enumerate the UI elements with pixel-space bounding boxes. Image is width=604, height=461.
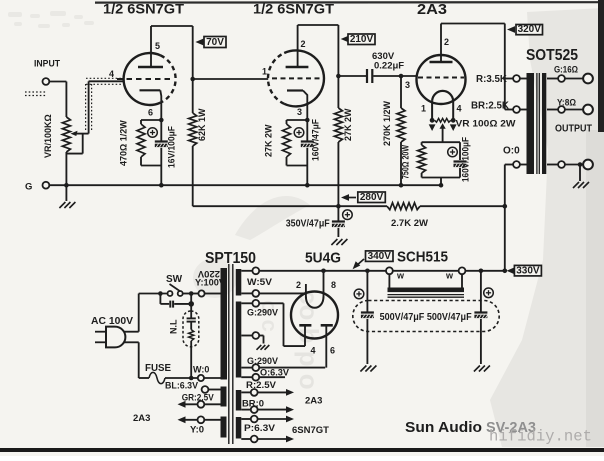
svg-text:Y:0: Y:0 xyxy=(190,425,204,436)
svg-text:BR:0: BR:0 xyxy=(242,398,264,409)
svg-text:2A3: 2A3 xyxy=(133,413,150,424)
svg-text:GR:2.5V: GR:2.5V xyxy=(182,393,215,404)
svg-text:G:290V: G:290V xyxy=(247,356,279,367)
svg-text:G:290V: G:290V xyxy=(247,308,279,319)
svg-text:1: 1 xyxy=(421,104,426,114)
svg-text:6: 6 xyxy=(148,108,153,118)
svg-text:AC 100V: AC 100V xyxy=(91,316,133,327)
svg-text:VR 100Ω 2W: VR 100Ω 2W xyxy=(456,119,516,130)
svg-text:4: 4 xyxy=(311,346,316,356)
svg-text:OUTPUT: OUTPUT xyxy=(555,124,592,135)
svg-text:16V/100μF: 16V/100μF xyxy=(167,126,177,168)
svg-text:hifidiy.net: hifidiy.net xyxy=(489,428,592,446)
svg-text:SOT525: SOT525 xyxy=(526,47,578,64)
svg-text:2A3: 2A3 xyxy=(417,2,447,18)
svg-text:280V: 280V xyxy=(360,192,384,203)
svg-text:340V: 340V xyxy=(368,251,392,262)
svg-text:BR:2.5K: BR:2.5K xyxy=(471,100,510,111)
svg-text:750Ω 20W: 750Ω 20W xyxy=(401,145,411,179)
svg-text:INPUT: INPUT xyxy=(34,59,60,70)
svg-text:2A3: 2A3 xyxy=(305,396,322,407)
svg-text:VR/100KΩ: VR/100KΩ xyxy=(43,114,53,158)
svg-text:SCH515: SCH515 xyxy=(397,249,448,266)
svg-text:G:16Ω: G:16Ω xyxy=(554,65,578,76)
svg-text:2: 2 xyxy=(296,280,301,290)
svg-text:8: 8 xyxy=(331,280,336,290)
svg-text:160V/47μF: 160V/47μF xyxy=(311,119,321,161)
svg-text:5U4G: 5U4G xyxy=(305,250,341,267)
svg-text:2.7K 2W: 2.7K 2W xyxy=(391,218,428,229)
svg-text:Y:8Ω: Y:8Ω xyxy=(557,98,576,109)
svg-text:3: 3 xyxy=(297,107,302,117)
svg-text:62K 1W: 62K 1W xyxy=(197,108,207,141)
svg-text:FUSE: FUSE xyxy=(145,363,171,374)
svg-text:G: G xyxy=(25,182,32,193)
svg-text:160V/100μF: 160V/100μF xyxy=(461,137,471,182)
svg-text:270K 1/2W: 270K 1/2W xyxy=(382,100,392,146)
svg-text:1/2 6SN7GT: 1/2 6SN7GT xyxy=(103,1,184,17)
svg-text:W:5V: W:5V xyxy=(247,277,273,288)
svg-text:W:0: W:0 xyxy=(193,365,209,375)
svg-text:6: 6 xyxy=(330,346,335,356)
svg-text:27K 2W: 27K 2W xyxy=(343,108,353,141)
svg-text:350V/47μF: 350V/47μF xyxy=(286,219,330,230)
svg-text:BL:6.3V: BL:6.3V xyxy=(165,381,199,392)
svg-text:4: 4 xyxy=(109,69,114,79)
svg-text:500V/47μF 500V/47μF: 500V/47μF 500V/47μF xyxy=(380,312,472,323)
svg-text:O:6.3V: O:6.3V xyxy=(260,368,290,379)
svg-text:w: w xyxy=(445,271,454,281)
svg-text:Sun Audio: Sun Audio xyxy=(405,419,482,436)
svg-text:SPT150: SPT150 xyxy=(205,250,256,267)
svg-text:N.L: N.L xyxy=(169,319,179,334)
svg-text:1/2 6SN7GT: 1/2 6SN7GT xyxy=(253,1,334,17)
svg-text:R:2.5V: R:2.5V xyxy=(246,380,277,391)
svg-text:O:0: O:0 xyxy=(503,146,520,157)
svg-text:70V: 70V xyxy=(206,37,224,48)
svg-text:w: w xyxy=(396,271,405,281)
svg-text:5: 5 xyxy=(155,41,160,51)
svg-text:0.22μF: 0.22μF xyxy=(374,61,404,72)
svg-text:470Ω 1/2W: 470Ω 1/2W xyxy=(118,120,128,166)
svg-text:330V: 330V xyxy=(516,265,540,276)
svg-text:2: 2 xyxy=(444,37,449,47)
svg-text:4: 4 xyxy=(457,104,462,114)
svg-text:320V: 320V xyxy=(518,24,542,35)
svg-text:27K 2W: 27K 2W xyxy=(264,124,274,157)
svg-text:SW: SW xyxy=(166,274,183,285)
svg-text:R:3.5K: R:3.5K xyxy=(476,74,508,85)
svg-text:1: 1 xyxy=(262,67,267,77)
svg-text:P:6.3V: P:6.3V xyxy=(244,423,276,434)
svg-text:2: 2 xyxy=(301,39,306,49)
svg-text:210V: 210V xyxy=(350,34,374,45)
svg-text:6SN7GT: 6SN7GT xyxy=(292,425,329,436)
svg-text:3: 3 xyxy=(405,80,410,90)
